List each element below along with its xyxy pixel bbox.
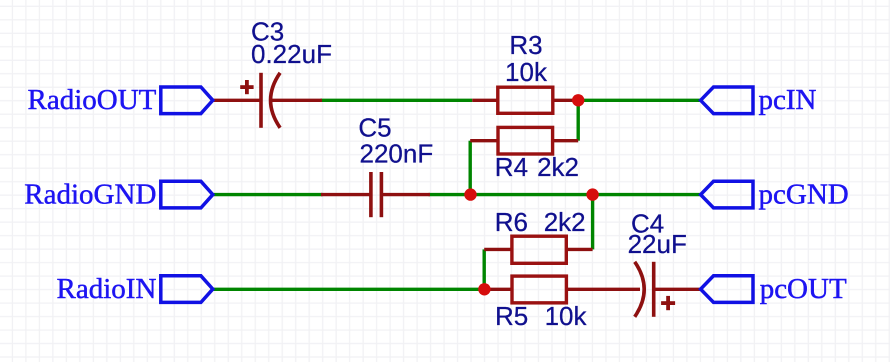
svg-text:pcGND: pcGND: [759, 178, 849, 210]
R4 value label: [537, 152, 579, 182]
junction row2 left: [464, 188, 476, 200]
capacitor C3: [213, 73, 322, 128]
svg-text:2k2: 2k2: [537, 152, 579, 182]
wire row2 RadioGND to C5: [213, 193, 323, 196]
C4 value label: [628, 229, 687, 259]
node RadioIN: [57, 273, 213, 305]
svg-text:R5: R5: [495, 301, 528, 331]
C5 reference label: [358, 113, 391, 143]
svg-text:RadioIN: RadioIN: [57, 273, 157, 305]
svg-text:10k: 10k: [505, 57, 548, 87]
R6 reference label: [495, 207, 528, 237]
svg-text:R4: R4: [495, 152, 528, 182]
R5 reference label: [495, 301, 528, 331]
wire row2 C5 to pcGND: [429, 193, 701, 196]
resistor R6: [484, 236, 592, 263]
resistor R4: [470, 127, 578, 154]
C5 value label: [360, 139, 434, 169]
R3 value label: [505, 57, 548, 87]
wire vertical R4 right to row1 junction: [577, 100, 580, 140]
capacitor C5: [321, 172, 430, 217]
junction row3: [478, 283, 490, 295]
svg-text:pcIN: pcIN: [759, 84, 817, 116]
node RadioGND: [24, 178, 213, 210]
wire row1 C3 to R3: [321, 99, 473, 102]
svg-text:0.22uF: 0.22uF: [251, 39, 332, 69]
wire vertical R4 left down to row2: [469, 141, 472, 195]
R6 value label: [544, 207, 586, 237]
node pcGND: [701, 178, 849, 210]
wire vertical row2 down to R6 right: [591, 195, 594, 250]
node RadioOUT: [28, 84, 213, 116]
svg-text:22uF: 22uF: [628, 229, 687, 259]
C4 reference label: [631, 209, 664, 239]
R5 value label: [545, 301, 588, 331]
R3 reference label: [509, 30, 542, 60]
junction row2 right: [586, 188, 598, 200]
resistor R3: [472, 87, 578, 113]
C3 value label: [251, 39, 332, 69]
svg-text:220nF: 220nF: [360, 139, 434, 169]
node pcIN: [701, 84, 817, 116]
wire row1 junction to pcIN: [578, 99, 700, 102]
svg-text:10k: 10k: [545, 301, 588, 331]
svg-text:pcOUT: pcOUT: [760, 273, 847, 305]
wire row3 RadioIN to R5: [213, 288, 485, 291]
wire vertical R6 left down to row3: [483, 249, 486, 289]
junction row1 R3 output: [572, 94, 584, 106]
capacitor C4: [635, 262, 701, 317]
R4 reference label: [495, 152, 528, 182]
resistor R5: [484, 276, 640, 303]
node pcOUT: [701, 273, 847, 305]
C3 reference label: [251, 17, 284, 47]
svg-text:R3: R3: [509, 30, 542, 60]
svg-text:R6: R6: [495, 207, 528, 237]
svg-text:2k2: 2k2: [544, 207, 586, 237]
svg-text:RadioGND: RadioGND: [24, 178, 156, 210]
svg-text:RadioOUT: RadioOUT: [28, 84, 157, 116]
